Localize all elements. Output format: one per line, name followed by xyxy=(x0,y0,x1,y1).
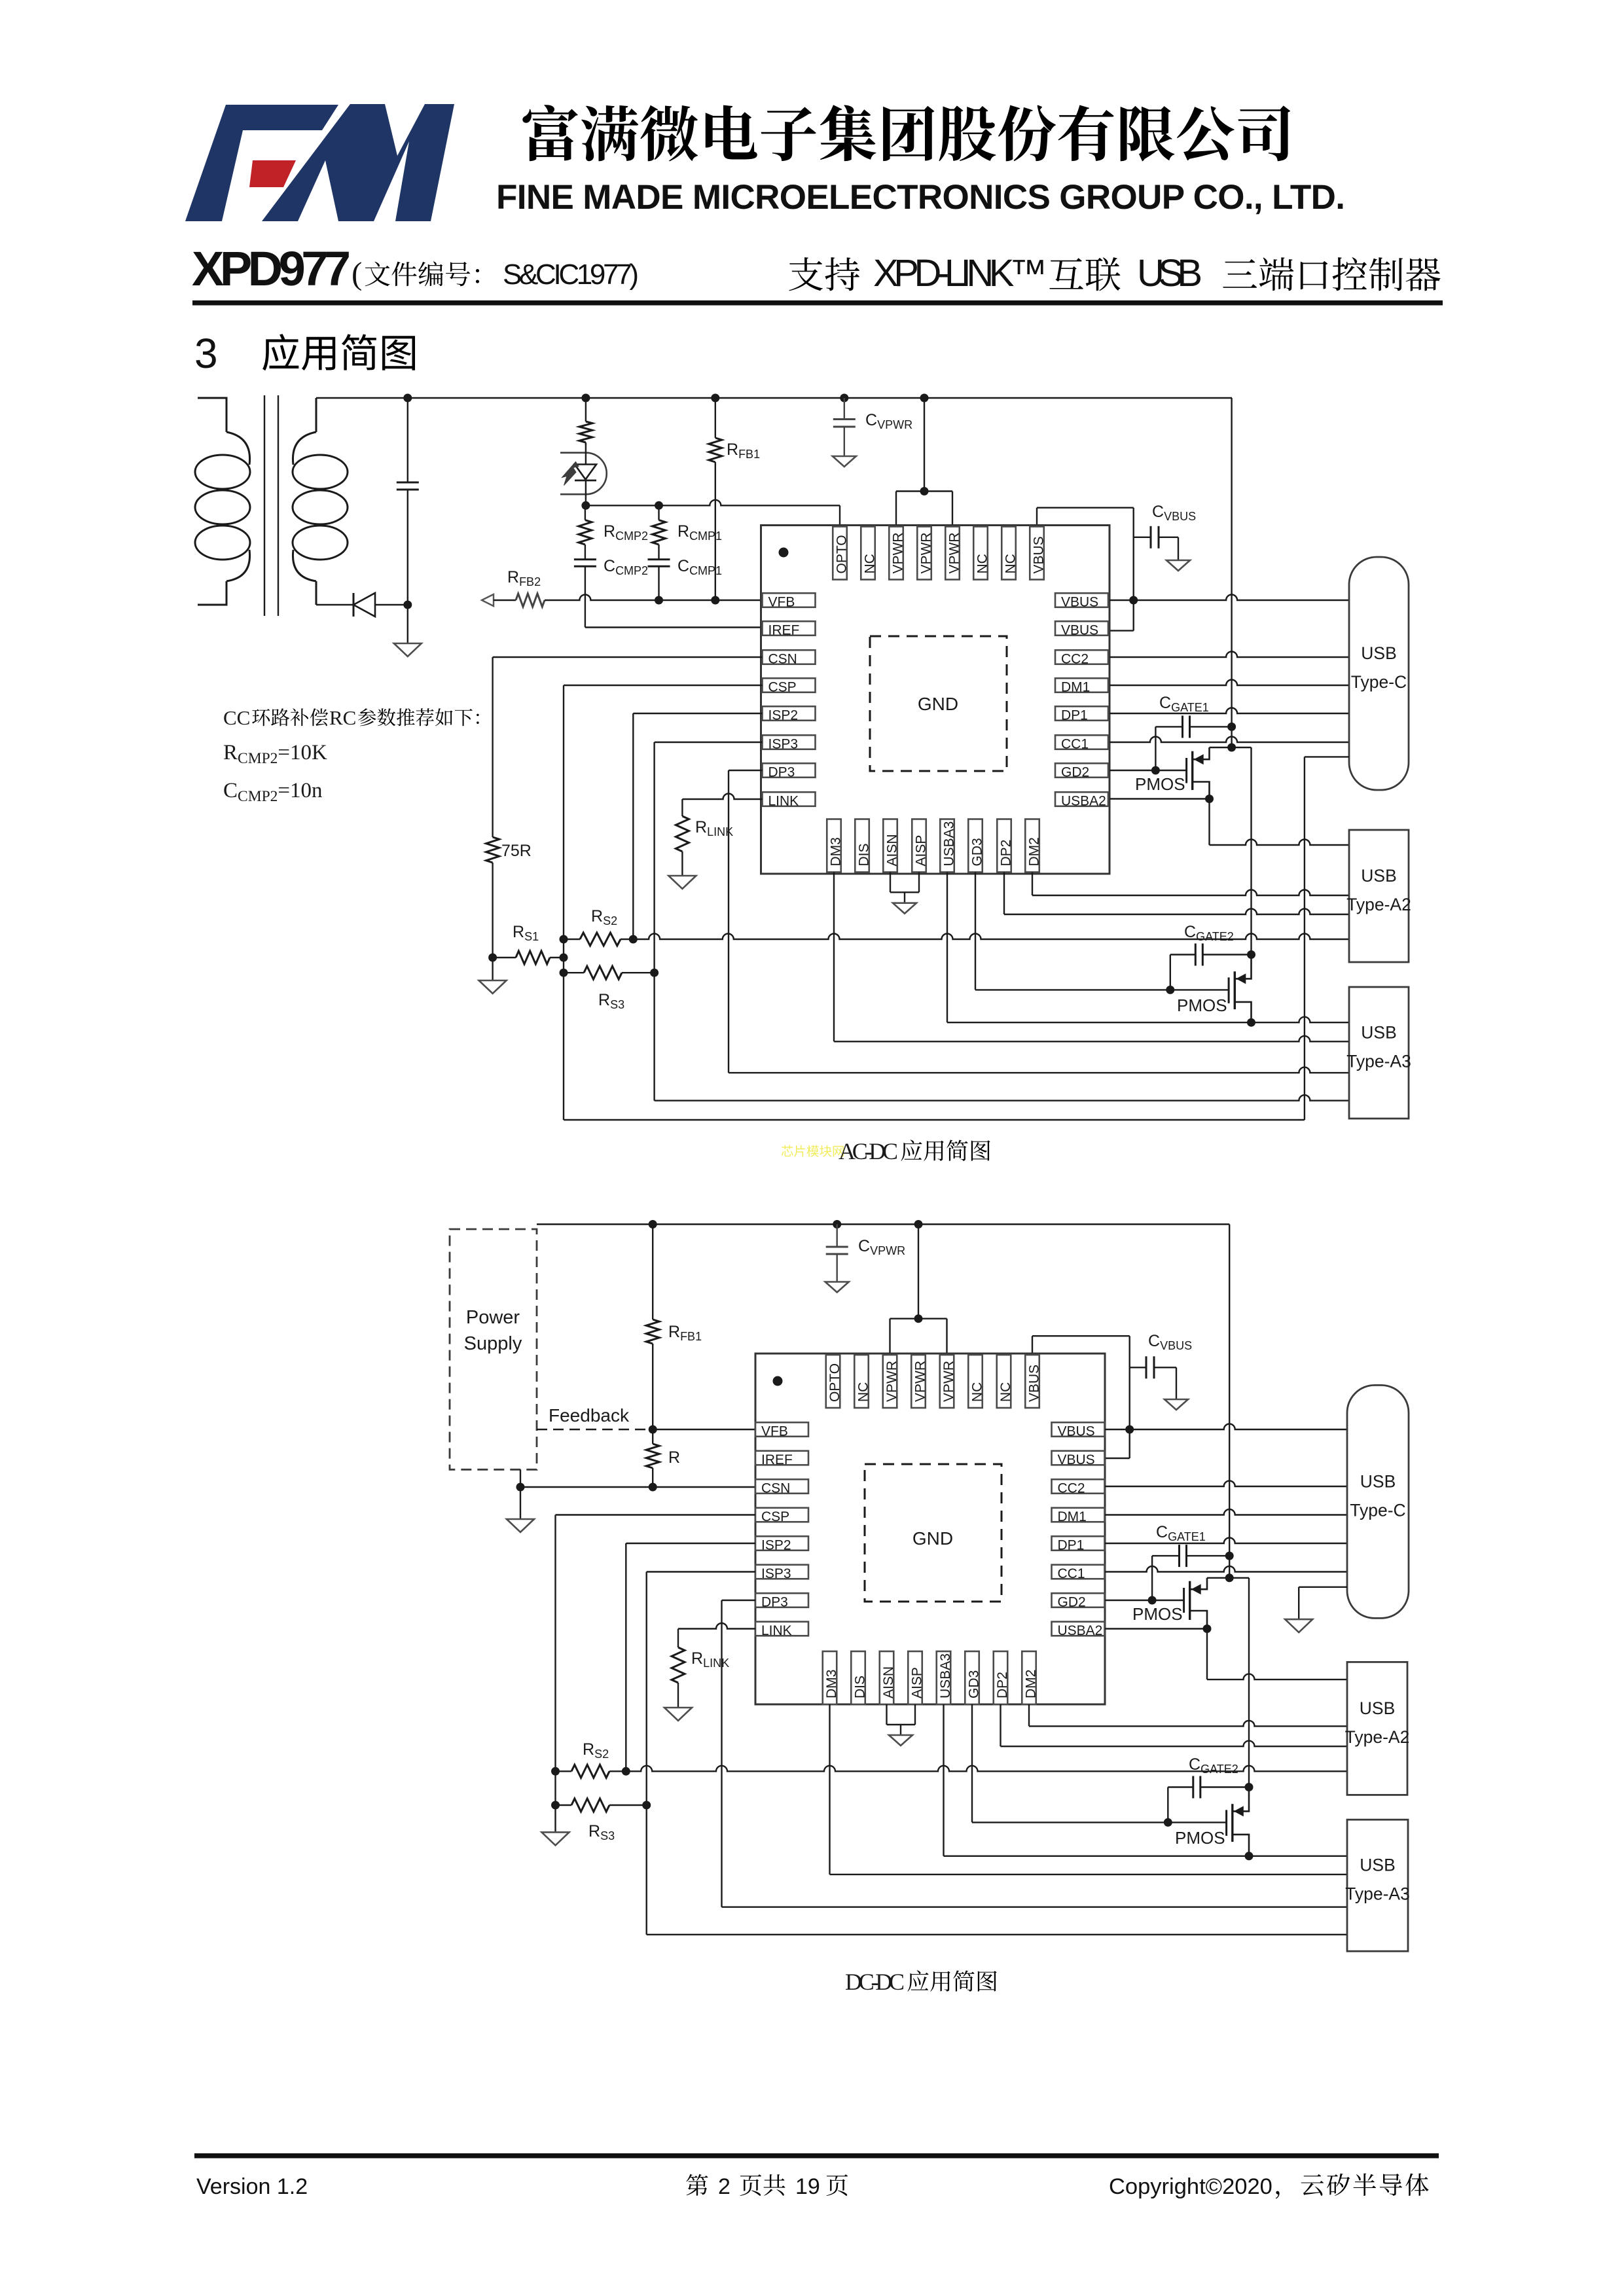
resistor RS3 xyxy=(564,966,655,979)
svg-text:DM3: DM3 xyxy=(828,837,843,866)
wire DM3 to A3 (DC-DC) xyxy=(830,1704,1348,1874)
VPWR pins feed bracket xyxy=(896,398,952,527)
capacitor CVPWR xyxy=(840,394,848,403)
node PMOS1 source to rail xyxy=(1210,747,1252,748)
svg-text:USB: USB xyxy=(1360,1856,1396,1875)
svg-text:CSN: CSN xyxy=(761,1480,790,1496)
svg-text:NC: NC xyxy=(998,1382,1013,1402)
svg-text:AISN: AISN xyxy=(881,1666,896,1698)
svg-text:CC2: CC2 xyxy=(1058,1480,1085,1496)
wire opto to OPTO pin xyxy=(586,500,840,527)
ground (RS1) xyxy=(479,958,507,994)
pin AISP (bottom) xyxy=(912,819,928,872)
svg-text:USB: USB xyxy=(1137,252,1202,295)
svg-text:75R: 75R xyxy=(501,842,532,860)
svg-text:XPD977: XPD977 xyxy=(192,242,351,296)
pin CC2 (right) xyxy=(1055,650,1108,666)
caption AC-DC xyxy=(839,1138,990,1164)
ground (CSP node DC-DC) xyxy=(542,1832,569,1845)
ground (CVPWR) xyxy=(833,456,856,467)
pin NC (top) xyxy=(861,527,877,580)
svg-text:DM1: DM1 xyxy=(1058,1509,1087,1524)
wire LINK (DC-DC) xyxy=(678,1623,755,1629)
pin 1 marker xyxy=(779,548,789,558)
svg-text:Version 1.2: Version 1.2 xyxy=(196,2174,308,2199)
transformer T1 primary winding xyxy=(195,398,250,605)
pin OPTO (top, DC-DC) xyxy=(826,1355,842,1408)
svg-text:Type-A2: Type-A2 xyxy=(1346,895,1411,914)
pin DIS (bottom, DC-DC) xyxy=(851,1651,867,1704)
svg-text:NC: NC xyxy=(975,554,990,573)
GND pad (DC-DC) xyxy=(865,1464,1001,1602)
ground (power supply) xyxy=(507,1519,534,1532)
svg-text:USBA2: USBA2 xyxy=(1058,1623,1103,1638)
pin VBUS (right) xyxy=(1055,593,1108,609)
pin CSN (left, DC-DC) xyxy=(755,1479,808,1496)
ground (CVPWR DC-DC) xyxy=(825,1282,849,1293)
rail drop (DC-DC) xyxy=(1229,1225,1230,1578)
wire USBA3 / PMOS2 drain to USB A3 xyxy=(947,872,1349,1023)
pin CC1 (right) xyxy=(1055,735,1108,751)
pin GD2 (right) xyxy=(1055,763,1108,780)
svg-text:AISP: AISP xyxy=(913,835,928,867)
pin USBA2 (right) xyxy=(1055,792,1108,808)
wire GD2 to gate (DC-DC) xyxy=(1105,1600,1184,1601)
pin 1 marker (DC-DC) xyxy=(773,1376,783,1386)
resistor RLINK xyxy=(676,799,689,876)
capacitor CVBUS xyxy=(1134,526,1178,560)
wire DP2 to A2 (DC-DC) xyxy=(1001,1704,1348,1746)
wire VBUS to USB Type-C xyxy=(1110,595,1349,601)
PMOS Q2 xyxy=(1229,955,1251,1024)
svg-text:DP3: DP3 xyxy=(768,764,795,780)
svg-text:PMOS: PMOS xyxy=(1132,1604,1183,1624)
svg-text:R: R xyxy=(668,1448,680,1467)
pin NC (top, DC-DC) xyxy=(968,1355,984,1408)
svg-text:IREF: IREF xyxy=(768,622,800,637)
FM logo xyxy=(185,104,454,221)
pin IREF (left) xyxy=(763,621,816,637)
wire CCMP2 to IREF xyxy=(585,626,763,628)
svg-text:CSP: CSP xyxy=(768,679,797,694)
ground (CVBUS DC-DC) xyxy=(1164,1399,1188,1410)
USB Type-A2 connector xyxy=(1346,830,1411,962)
pin GD3 (bottom) xyxy=(968,819,984,872)
capacitor CVPWR (DC-DC) xyxy=(833,1220,841,1229)
svg-text:CSN: CSN xyxy=(768,651,797,666)
pin VPWR (top, DC-DC) xyxy=(911,1355,928,1408)
ground (RLINK) xyxy=(668,876,696,889)
pin VBUS (right) xyxy=(1055,621,1108,637)
svg-text:LINK: LINK xyxy=(768,793,799,808)
pin GD2 (right, DC-DC) xyxy=(1052,1593,1105,1609)
pin CSN (left) xyxy=(763,650,816,666)
footer rule xyxy=(194,2153,1439,2159)
pin VPWR (top) xyxy=(889,527,905,580)
svg-text:DIS: DIS xyxy=(852,1676,867,1698)
page subtitle 支持 XPD-LINK 互联 USB 三端口控制器 xyxy=(789,257,859,291)
wire USBA3 / PMOS2 drain to A3 (DC-DC) xyxy=(944,1704,1348,1856)
transformer T1 core xyxy=(264,395,278,616)
svg-text:19: 19 xyxy=(795,2174,820,2199)
svg-text:PMOS: PMOS xyxy=(1177,996,1227,1015)
svg-text:USB: USB xyxy=(1361,643,1397,663)
svg-text:USBA3: USBA3 xyxy=(938,1653,953,1698)
resistor RS2 xyxy=(564,933,633,946)
Type-C shield ground (DC-DC) xyxy=(1299,1587,1347,1619)
svg-text:S&CIC1977): S&CIC1977) xyxy=(503,259,639,291)
svg-text:VBUS: VBUS xyxy=(1026,1365,1041,1402)
pin VPWR (top) xyxy=(917,527,933,580)
wire GD3 to PMOS2 gate (DC-DC) xyxy=(972,1704,1227,1822)
USB Type-A2 connector (DC-DC) xyxy=(1345,1662,1410,1795)
wire CSN (DC-DC) + PS ground xyxy=(520,1469,755,1519)
svg-text:DM3: DM3 xyxy=(824,1670,839,1698)
footer copyright xyxy=(1109,2174,1429,2199)
svg-text:RC: RC xyxy=(329,706,356,729)
AISN/AISP tie xyxy=(890,872,919,903)
svg-text:Feedback: Feedback xyxy=(549,1405,630,1426)
wire DP3 to A3 (DC-DC) xyxy=(722,1600,1348,1907)
wire DP1 (DC-DC) xyxy=(1105,1538,1347,1544)
pin VBUS (right, DC-DC) xyxy=(1052,1422,1105,1439)
pin CC1 (right, DC-DC) xyxy=(1052,1565,1105,1581)
pin USBA3 (bottom) xyxy=(940,819,956,872)
pin DP2 (bottom, DC-DC) xyxy=(994,1651,1010,1704)
svg-text:Type-A3: Type-A3 xyxy=(1346,1052,1411,1071)
svg-text:Type-A2: Type-A2 xyxy=(1345,1727,1410,1747)
svg-text:DP2: DP2 xyxy=(998,840,1013,867)
capacitor CGATE1 xyxy=(1155,715,1231,770)
svg-text:2: 2 xyxy=(718,2174,731,2199)
svg-text:PMOS: PMOS xyxy=(1175,1828,1225,1848)
svg-text:GND: GND xyxy=(918,694,958,714)
pin DM1 (right) xyxy=(1055,678,1108,694)
ground (AISN/AISP) xyxy=(893,903,916,914)
pin ISP2 (left, DC-DC) xyxy=(755,1536,808,1552)
IC U1 XPD977 xyxy=(761,526,1110,874)
svg-text:DP2: DP2 xyxy=(995,1672,1010,1698)
svg-text:CC: CC xyxy=(223,706,250,729)
ground (CVBUS) xyxy=(1166,560,1190,571)
capacitor CGATE2 (DC-DC) xyxy=(1168,1776,1249,1823)
wire ISP3 xyxy=(655,742,1349,1101)
pin DM1 (right, DC-DC) xyxy=(1052,1508,1105,1524)
pin DIS (bottom) xyxy=(855,819,871,872)
pin DP2 (bottom) xyxy=(997,819,1013,872)
pin VFB (left, DC-DC) xyxy=(755,1422,808,1439)
wire USBA2 to PMOS1 drain xyxy=(1110,798,1210,799)
svg-text:VBUS: VBUS xyxy=(1061,622,1098,637)
wire DP2 to USB A2 xyxy=(1004,872,1349,915)
pin OPTO (top) xyxy=(833,527,849,580)
wire CC2 (DC-DC) xyxy=(1105,1481,1347,1487)
pin DP3 (left, DC-DC) xyxy=(755,1593,808,1609)
svg-text:ISP2: ISP2 xyxy=(761,1537,791,1552)
svg-text:ISP3: ISP3 xyxy=(761,1566,791,1581)
svg-text:AISN: AISN xyxy=(884,834,899,866)
PMOS Q2 (DC-DC) xyxy=(1227,1787,1249,1856)
svg-text:VPWR: VPWR xyxy=(947,533,962,574)
node PMOS1 source rail (DC-DC) xyxy=(1207,1577,1249,1579)
capacitor CGATE2 xyxy=(1170,944,1252,990)
svg-text:IREF: IREF xyxy=(761,1452,793,1467)
capacitor CVBUS (DC-DC) xyxy=(1130,1356,1176,1399)
pin VFB (left) xyxy=(763,593,816,609)
pin DM3 (bottom) xyxy=(827,819,843,872)
company name Chinese 富满微电子集团股份有限公司 xyxy=(522,105,1290,161)
wire DM2 to A2 (DC-DC) xyxy=(1029,1704,1347,1726)
svg-text:DM1: DM1 xyxy=(1061,679,1090,694)
svg-text:CC1: CC1 xyxy=(1058,1566,1085,1581)
rail drop to CGATE2 xyxy=(1250,747,1252,955)
svg-text:Type-C: Type-C xyxy=(1350,1500,1405,1520)
GND pad xyxy=(870,636,1007,771)
capacitor CGATE1 (DC-DC) xyxy=(1152,1545,1229,1600)
IC U1 XPD977 (DC-DC) xyxy=(755,1354,1105,1704)
VPWR rail drop wire xyxy=(1231,398,1232,747)
svg-text:3: 3 xyxy=(194,330,218,377)
pin NC (top) xyxy=(1001,527,1018,580)
svg-text:DP3: DP3 xyxy=(761,1594,788,1609)
svg-text:VBUS: VBUS xyxy=(1031,536,1046,573)
wire DM3 to USB A3 xyxy=(834,872,1349,1042)
pin GD3 (bottom, DC-DC) xyxy=(965,1651,981,1704)
wire CSP (DC-DC) xyxy=(556,1515,756,1833)
svg-text:OPTO: OPTO xyxy=(827,1363,842,1402)
resistor RFB1 xyxy=(711,394,719,403)
Feedback dashed wire xyxy=(537,1405,653,1429)
wire CC1 to USB Type-C xyxy=(1110,737,1349,743)
pin DP3 (left) xyxy=(763,763,816,780)
shunt bus RS2 to USB A2 xyxy=(633,934,1349,940)
svg-text:ISP3: ISP3 xyxy=(768,736,799,751)
optocoupler input branch resistor xyxy=(579,398,592,445)
shunt bus RS2 to A2 (DC-DC) xyxy=(626,1766,1347,1772)
wire ISP2 xyxy=(633,713,762,939)
wire GD3 to PMOS2 gate xyxy=(975,872,1229,990)
resistor RCMP2 xyxy=(579,505,592,560)
wire CSN + resistor 75R xyxy=(486,657,763,958)
ground (bulk cap) xyxy=(394,643,422,656)
svg-text:USB: USB xyxy=(1361,1023,1397,1043)
svg-text:VPWR: VPWR xyxy=(890,533,905,574)
resistor RFB2 xyxy=(494,594,763,607)
pin LINK (left, DC-DC) xyxy=(755,1622,808,1638)
caption DC-DC xyxy=(845,1969,997,1995)
pin DM2 (bottom) xyxy=(1025,819,1041,872)
svg-text:DM2: DM2 xyxy=(1023,1670,1038,1698)
wire DM2 to USB A2 xyxy=(1032,872,1349,896)
svg-text:CC2: CC2 xyxy=(1061,651,1089,666)
ground (Type-C DC-DC) xyxy=(1285,1619,1312,1632)
pin CSP (left) xyxy=(763,678,816,694)
svg-text:CSP: CSP xyxy=(761,1509,789,1524)
svg-text:GD2: GD2 xyxy=(1058,1594,1086,1609)
wire CC1 (DC-DC) xyxy=(1105,1566,1347,1572)
svg-text:USB: USB xyxy=(1360,1698,1396,1718)
pin NC (top, DC-DC) xyxy=(854,1355,871,1408)
AISN/AISP tie (DC-DC) xyxy=(887,1704,916,1735)
wire VFB (DC-DC) xyxy=(653,1429,755,1430)
ground (RLINK DC-DC) xyxy=(664,1708,692,1721)
pin VBUS (top) xyxy=(1030,527,1046,580)
pin DP1 (right) xyxy=(1055,706,1108,723)
svg-text:GND: GND xyxy=(912,1528,953,1549)
pin NC (top, DC-DC) xyxy=(997,1355,1013,1408)
wire VBUS to Type-C (DC-DC) xyxy=(1105,1424,1347,1429)
wire PMOS1 drain to USB A2 VBUS xyxy=(1210,799,1350,846)
wire DP3 to USB A3 xyxy=(729,770,1349,1073)
wire Type-C return xyxy=(1305,757,1349,1120)
USB Type-A3 connector (DC-DC) xyxy=(1345,1820,1410,1951)
svg-text:XPD-LINK™: XPD-LINK™ xyxy=(873,252,1047,295)
resistor RS3 (DC-DC) xyxy=(556,1799,647,1812)
pin CSP (left, DC-DC) xyxy=(755,1508,808,1524)
svg-text:DM2: DM2 xyxy=(1026,837,1041,866)
header rule xyxy=(192,300,1443,306)
optocoupler U2 LED xyxy=(560,444,607,505)
pin AISN (bottom) xyxy=(883,819,899,872)
pin USBA2 (right, DC-DC) xyxy=(1052,1622,1105,1638)
pin ISP3 (left, DC-DC) xyxy=(755,1565,808,1581)
svg-text:OPTO: OPTO xyxy=(834,535,849,573)
transformer T1 secondary winding xyxy=(293,398,348,605)
pin VPWR (top, DC-DC) xyxy=(883,1355,899,1408)
capacitor CCMP2 xyxy=(574,560,596,628)
bulk capacitor C1 xyxy=(397,398,419,643)
pin DM2 (bottom, DC-DC) xyxy=(1022,1651,1038,1704)
PMOS Q1 (DC-DC) xyxy=(1184,1578,1207,1629)
svg-text:LINK: LINK xyxy=(761,1623,792,1638)
USB Type-C connector xyxy=(1349,557,1409,790)
resistor RFB1 (DC-DC) xyxy=(649,1220,657,1229)
rail drop to CGATE2 (DC-DC) xyxy=(1248,1578,1250,1787)
resistor RS2 (DC-DC) xyxy=(556,1765,626,1778)
wire secondary bottom to diode xyxy=(316,604,353,605)
footer page number xyxy=(686,2174,848,2199)
svg-text:Type-A3: Type-A3 xyxy=(1345,1884,1410,1904)
pin VBUS (top, DC-DC) xyxy=(1025,1355,1041,1408)
USB Type-A3 connector xyxy=(1346,987,1411,1119)
svg-text:DP1: DP1 xyxy=(1061,708,1088,723)
wire ISP2 (DC-DC) xyxy=(626,1543,755,1771)
pin DP1 (right, DC-DC) xyxy=(1052,1536,1105,1552)
svg-text:AISP: AISP xyxy=(909,1667,924,1698)
svg-text:NC: NC xyxy=(969,1382,984,1402)
VPWR bracket (DC-DC) xyxy=(890,1225,947,1355)
svg-text:FINE MADE MICROELECTRONICS GRO: FINE MADE MICROELECTRONICS GROUP CO., LT… xyxy=(496,178,1345,217)
wire PMOS1 drain to A2 (DC-DC) xyxy=(1207,1629,1347,1680)
pin VPWR (top) xyxy=(945,527,962,580)
svg-text:VPWR: VPWR xyxy=(941,1361,956,1402)
svg-text:PMOS: PMOS xyxy=(1135,774,1185,794)
wire DM1 to USB Type-C xyxy=(1110,680,1349,686)
wire DM1 (DC-DC) xyxy=(1105,1509,1347,1515)
resistor RLINK (DC-DC) xyxy=(672,1629,685,1708)
watermark xyxy=(782,1145,844,1157)
svg-text:NC: NC xyxy=(856,1382,871,1402)
VBUS top jog (DC-DC) xyxy=(1032,1336,1130,1458)
resistor RCMP1 xyxy=(655,501,663,510)
svg-text:VPWR: VPWR xyxy=(912,1361,928,1402)
wire CSP xyxy=(564,685,1305,1120)
svg-text:NC: NC xyxy=(862,554,877,573)
svg-text:CC1: CC1 xyxy=(1061,736,1089,751)
capacitor CCMP1 xyxy=(648,560,670,600)
pin ISP3 (left) xyxy=(763,735,816,751)
pin CC2 (right, DC-DC) xyxy=(1052,1479,1105,1496)
pin AISN (bottom, DC-DC) xyxy=(880,1651,896,1704)
svg-text:VFB: VFB xyxy=(761,1424,788,1439)
svg-text:VBUS: VBUS xyxy=(1058,1424,1095,1439)
svg-text:VFB: VFB xyxy=(768,594,795,609)
feedback arrow (to RFB2) xyxy=(482,594,494,606)
svg-text:Power: Power xyxy=(466,1307,520,1328)
svg-text:Supply: Supply xyxy=(464,1333,522,1354)
pin VPWR (top, DC-DC) xyxy=(940,1355,956,1408)
svg-text:USB: USB xyxy=(1361,866,1397,886)
wire CC2 to USB Type-C xyxy=(1110,652,1349,658)
svg-text:NC: NC xyxy=(1003,554,1018,573)
svg-text:ISP2: ISP2 xyxy=(768,708,799,723)
USB Type-C connector (DC-DC) xyxy=(1347,1385,1409,1618)
svg-text:VBUS: VBUS xyxy=(1061,594,1098,609)
top VPWR rail wire xyxy=(316,397,1232,399)
svg-text:VPWR: VPWR xyxy=(918,533,933,574)
svg-text:DC-DC: DC-DC xyxy=(845,1969,905,1995)
wire GD2 to PMOS gate xyxy=(1110,770,1187,771)
rectifier diode D1 xyxy=(353,593,408,617)
pin USBA3 (bottom, DC-DC) xyxy=(937,1651,953,1704)
svg-text:(: ( xyxy=(352,255,362,291)
PMOS Q1 xyxy=(1187,747,1210,799)
svg-text:AC-DC: AC-DC xyxy=(839,1138,898,1164)
pin AISP (bottom, DC-DC) xyxy=(908,1651,924,1704)
pin VBUS (right, DC-DC) xyxy=(1052,1451,1105,1467)
wire LINK xyxy=(682,794,762,800)
top rail wire (DC-DC) xyxy=(537,1223,1229,1225)
pin IREF (left, DC-DC) xyxy=(755,1451,808,1467)
svg-text:GD3: GD3 xyxy=(966,1670,981,1698)
pin DM3 (bottom, DC-DC) xyxy=(823,1651,839,1704)
ground (AISN/AISP DC-DC) xyxy=(889,1735,912,1746)
svg-text:GD2: GD2 xyxy=(1061,764,1089,780)
pin ISP2 (left) xyxy=(763,706,816,723)
svg-text:DIS: DIS xyxy=(856,843,871,866)
svg-text:GD3: GD3 xyxy=(969,838,984,866)
note CC loop compensation xyxy=(223,706,479,805)
svg-text:USBA3: USBA3 xyxy=(941,821,956,867)
wire VBUS top pin jog xyxy=(1037,508,1134,631)
svg-text:VPWR: VPWR xyxy=(884,1361,899,1402)
svg-text:DP1: DP1 xyxy=(1058,1537,1085,1552)
wire ISP3 (DC-DC) xyxy=(647,1572,1347,1935)
svg-text:USBA2: USBA2 xyxy=(1061,793,1106,808)
resistor RS1 xyxy=(493,951,564,964)
svg-text:VBUS: VBUS xyxy=(1058,1452,1095,1467)
wire DP1 to USB Type-C xyxy=(1110,708,1349,714)
svg-text:Type-C: Type-C xyxy=(1351,672,1407,692)
pin LINK (left) xyxy=(763,792,816,808)
Power Supply block xyxy=(450,1229,537,1469)
wire USBA2 (DC-DC) xyxy=(1105,1628,1207,1629)
svg-text:USB: USB xyxy=(1360,1471,1396,1491)
pin NC (top) xyxy=(973,527,990,580)
svg-text:Copyright©2020: Copyright©2020 xyxy=(1109,2174,1272,2199)
resistor R (DC-DC) xyxy=(646,1429,659,1487)
